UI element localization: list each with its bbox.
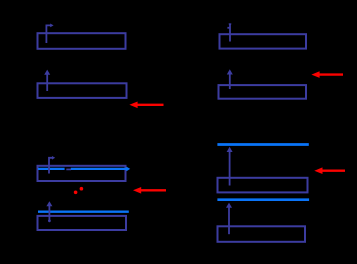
construct 4 gene rectangle (left, row 4): [38, 216, 127, 230]
construct 8 gene rectangle (right, row 4): [218, 226, 306, 242]
construct 4 transcript line (bright blue, above rectangle): [38, 210, 129, 212]
construct 3 bent transcription-start arrow: [49, 156, 55, 174]
construct 3 transcript line right segment with arrow tip: [71, 167, 130, 172]
transcript line 1 (bright blue, bottom-right group): [217, 143, 308, 146]
construct 7 long up arrow: [227, 147, 233, 186]
red dot 1 (between constructs 3 and 4): [74, 191, 78, 195]
construct 1 bent transcription-start arrow: [46, 24, 53, 44]
construct 2 up arrow: [44, 70, 50, 91]
construct 2 gene rectangle (left, row 2): [38, 83, 127, 98]
construct 5 bent transcription-start arrow: [227, 23, 231, 41]
construct 1 gene rectangle (top-left): [38, 33, 126, 49]
construct 5 gene rectangle (top-right): [220, 34, 307, 48]
construct 3 transcript line (bright blue) left segment: [38, 168, 65, 170]
construct 7 gene rectangle (right, row 3): [218, 178, 308, 193]
red arrow C (points left at construct 6): [311, 71, 343, 78]
transcript line 2 (bright blue, bottom-right group): [217, 198, 309, 201]
red dot 2: [80, 187, 84, 191]
construct 3 transcript gap dash (dark): [66, 168, 71, 170]
red arrow D (points left at construct 7): [314, 167, 345, 174]
red arrow A (points left at construct 2): [129, 102, 163, 109]
construct 4 up arrow with dot tail: [46, 201, 52, 222]
construct 6 up arrow: [227, 69, 233, 89]
red arrow B (points left between constructs 3 and 4): [133, 187, 166, 194]
construct 8 long up arrow: [226, 203, 232, 235]
construct 3 gene rectangle (left, row 3): [38, 166, 126, 181]
construct 6 gene rectangle (right, row 2): [219, 85, 307, 99]
